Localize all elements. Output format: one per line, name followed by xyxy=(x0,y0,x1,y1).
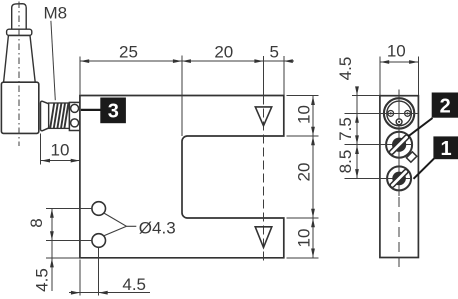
dim 10 connector line xyxy=(41,160,80,162)
label 2 leader xyxy=(408,118,433,137)
pin dot left xyxy=(390,112,392,114)
M8 thread body xyxy=(49,103,70,128)
right dim line xyxy=(312,96,314,258)
side left dim arrows xyxy=(355,86,359,178)
side crosshair connector xyxy=(345,112,418,114)
pin dot bottom xyxy=(398,121,400,123)
pin left xyxy=(388,111,394,117)
pot1 screw head xyxy=(392,172,406,186)
pin bottom xyxy=(396,119,402,125)
label 1 box xyxy=(433,136,458,159)
pot2 screw head xyxy=(392,138,406,152)
label 3 leader xyxy=(81,109,101,111)
svg-text:7.5: 7.5 xyxy=(336,117,355,141)
thread hatch xyxy=(50,103,68,128)
label 1 leader xyxy=(414,159,435,179)
svg-text:4.5: 4.5 xyxy=(32,268,51,292)
mount circle lower xyxy=(71,119,79,127)
pin bottom redraw xyxy=(396,119,402,125)
side left dim line xyxy=(356,87,358,179)
side vertical centerline solid xyxy=(398,90,400,197)
side view body xyxy=(380,96,419,258)
hole dim arrows xyxy=(50,209,54,268)
svg-text:5: 5 xyxy=(269,43,278,62)
cable collar xyxy=(7,29,32,35)
right dim extension lines xyxy=(287,96,319,258)
side vertical centerline dashed xyxy=(398,197,400,270)
side crosshair pot1 xyxy=(345,177,411,179)
mount circle upper xyxy=(71,104,79,112)
side top dim line xyxy=(380,61,419,63)
top dim line xyxy=(80,60,294,62)
dim 10 connector arrows xyxy=(41,159,50,163)
svg-text:8: 8 xyxy=(27,218,46,227)
svg-text:10: 10 xyxy=(51,141,70,160)
svg-text:1: 1 xyxy=(440,138,451,160)
connector end cap xyxy=(69,102,80,130)
dim 10 connector extension xyxy=(40,134,42,165)
hole dim line xyxy=(51,209,53,292)
side crosshair pot2 xyxy=(345,144,413,146)
pot2 outer circle xyxy=(386,132,412,158)
receiver triangle xyxy=(255,227,272,248)
top dim extension lines xyxy=(80,56,284,137)
svg-text:8.5: 8.5 xyxy=(336,150,355,174)
svg-text:Ø4.3: Ø4.3 xyxy=(139,219,176,238)
svg-text:10: 10 xyxy=(295,105,314,124)
svg-text:10: 10 xyxy=(387,42,406,61)
svg-text:4.5: 4.5 xyxy=(336,57,355,81)
svg-text:10: 10 xyxy=(295,229,314,248)
svg-text:20: 20 xyxy=(214,43,233,62)
bottom dim extension lines xyxy=(79,260,81,296)
svg-text:3: 3 xyxy=(108,101,119,123)
hole dim extension lines xyxy=(46,209,92,259)
bottom dim line xyxy=(69,292,150,294)
pin right xyxy=(405,111,411,117)
hole upper xyxy=(92,202,106,216)
side top dim extensions xyxy=(379,56,381,95)
M8 nut xyxy=(41,101,49,131)
hole lower xyxy=(92,234,106,248)
fork body outline xyxy=(80,96,284,258)
bottom dim arrows xyxy=(71,291,108,295)
side top dim arrows xyxy=(380,60,389,64)
cable xyxy=(12,4,27,30)
pin dot right xyxy=(406,112,408,114)
top dim arrows xyxy=(80,59,293,63)
pot1 outer circle xyxy=(387,166,411,190)
strain relief taper xyxy=(4,36,36,83)
connector centerline xyxy=(18,2,20,147)
pot2 screw slot xyxy=(389,134,410,155)
right dim arrows xyxy=(311,96,315,258)
pot1 screw slot xyxy=(389,169,408,188)
label 2 box xyxy=(432,93,458,118)
hole leader lines xyxy=(104,213,137,236)
connector face outer circle xyxy=(384,98,414,128)
svg-text:M8: M8 xyxy=(44,4,68,23)
connector face inner circle xyxy=(387,101,412,126)
M8 leader xyxy=(51,21,55,100)
label 3 box xyxy=(100,98,126,124)
pot2 tab xyxy=(406,152,416,162)
svg-text:20: 20 xyxy=(295,163,314,182)
connector body xyxy=(1,82,38,133)
svg-text:2: 2 xyxy=(440,95,451,117)
svg-text:4.5: 4.5 xyxy=(122,275,146,294)
svg-text:25: 25 xyxy=(119,43,138,62)
side top edge extension xyxy=(352,95,380,97)
emitter triangle xyxy=(255,107,271,126)
optical axis centerline xyxy=(262,96,264,263)
